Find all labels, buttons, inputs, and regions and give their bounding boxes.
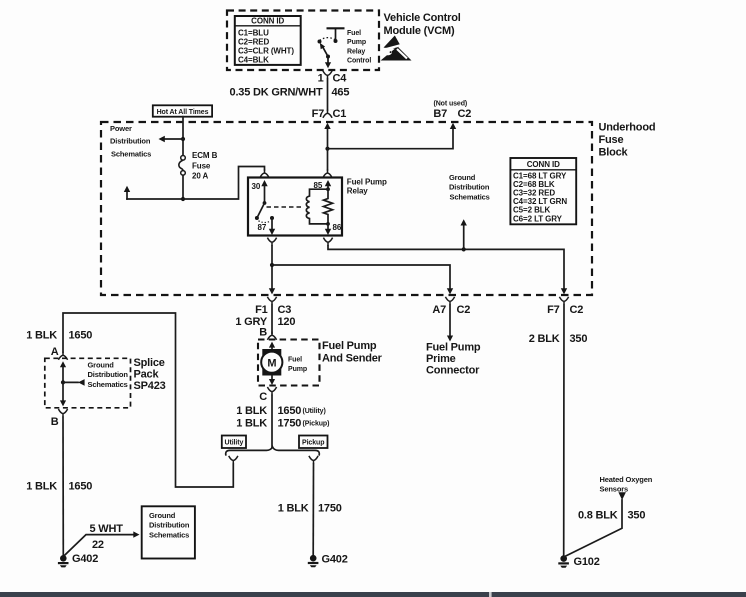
underhood fuse block box (dashed) (101, 122, 592, 295)
label B7 / C2 (433, 108, 471, 120)
svg-text:1 BLK: 1 BLK (26, 330, 57, 342)
label Ground Distribution Schematics (splice pack) (88, 361, 129, 389)
wire junction to relay pin 30 (183, 167, 265, 200)
svg-text:C3=CLR (WHT): C3=CLR (WHT) (238, 47, 294, 56)
label 1 BLK 1750 (pickup drop) (278, 503, 342, 515)
svg-text:Power: Power (110, 124, 132, 133)
svg-text:G402: G402 (72, 553, 98, 565)
svg-text:CONN ID: CONN ID (527, 160, 560, 169)
svg-text:Pickup: Pickup (302, 440, 324, 447)
relay pin 86 (325, 223, 342, 235)
svg-text:(Pickup): (Pickup) (303, 421, 330, 428)
svg-text:86: 86 (333, 223, 342, 232)
splice pack SP423 box (dashed) (45, 358, 131, 408)
label 1 BLK 1750 (Pickup) (236, 418, 329, 430)
label Fuel Pump And Sender (322, 340, 383, 365)
svg-text:20 A: 20 A (192, 172, 209, 181)
wire from Hot At All Times into fuse block (182, 117, 184, 156)
svg-text:2 BLK: 2 BLK (529, 333, 560, 345)
svg-text:A: A (51, 346, 59, 358)
svg-text:Fuel Pump: Fuel Pump (322, 340, 377, 352)
svg-text:(Utility): (Utility) (303, 408, 326, 415)
svg-text:Relay: Relay (347, 186, 368, 195)
wire arrow into motor (269, 342, 275, 350)
node relay coil bottom (326, 222, 330, 226)
svg-text:C4=BLK: C4=BLK (238, 56, 269, 65)
svg-text:(Not used): (Not used) (434, 101, 468, 108)
label 1 BLK 1650 (upper left) (26, 330, 92, 342)
label ECM B Fuse 20 A (192, 151, 218, 181)
connector glyph above relay pin 30 (260, 169, 269, 177)
wire heated oxygen sensors branch (564, 500, 622, 557)
label 1 GRY 120 (235, 316, 295, 328)
connector glyph exit F1 (267, 297, 276, 305)
connector glyph above relay pin 85 (323, 169, 332, 177)
label A7 / C2 (432, 304, 470, 316)
label F7 / C2 (547, 304, 583, 316)
brace splice to utility/pickup (226, 447, 320, 455)
ESD sensitivity symbol (381, 36, 412, 61)
node splice junction (61, 380, 65, 384)
wire stub with up arrow (power distribution) (124, 186, 183, 199)
node junction at power distribution tap (181, 137, 185, 141)
connector C1 pin F7 (glyph) (323, 110, 332, 118)
label Fuel Pump (inside) (288, 357, 307, 373)
connector glyph below relay pin 87 (267, 238, 276, 246)
connector C4 pin 1 (glyph) (323, 71, 332, 79)
label Pickup (boxed) (299, 436, 328, 449)
svg-text:Fuel Pump: Fuel Pump (426, 342, 481, 354)
relay K1 box (Fuel Pump Relay) (248, 178, 342, 236)
connector ID table (fuse block) (510, 158, 576, 224)
svg-text:Fuse: Fuse (599, 134, 624, 146)
label 0.8 BLK 350 (578, 510, 645, 522)
relay resistor R1 (324, 189, 333, 224)
label 0.35 DK GRN/WHT 465 (230, 87, 350, 99)
wire relay 87 down to F1 exit (269, 246, 275, 295)
svg-text:0.35 DK GRN/WHT: 0.35 DK GRN/WHT (230, 87, 323, 99)
wire F7 C2 to G102 (563, 305, 565, 556)
svg-text:120: 120 (278, 316, 296, 328)
svg-text:465: 465 (332, 87, 350, 99)
svg-text:ECM B: ECM B (192, 151, 218, 160)
connector glyph A (58, 352, 67, 360)
svg-text:Distribution: Distribution (449, 183, 490, 192)
wire arrow out of motor (269, 376, 275, 385)
label Splice Pack SP423 (134, 357, 166, 392)
svg-text:1 BLK: 1 BLK (236, 418, 267, 430)
wire pump to splice brace (271, 395, 273, 447)
node junction below fuse (181, 197, 185, 201)
svg-text:350: 350 (570, 333, 588, 345)
svg-text:C2: C2 (458, 108, 472, 120)
wire branch to B7 C2 (not used) (328, 123, 457, 149)
connector glyph B above pump (267, 332, 276, 340)
connector ID table (VCM) (235, 16, 301, 65)
svg-text:Utility: Utility (225, 440, 244, 447)
wire utility branch loop to splice pack (63, 313, 233, 487)
ground G402 (pickup) (308, 555, 319, 567)
svg-text:Module (VCM): Module (VCM) (384, 25, 455, 37)
svg-text:Fuse: Fuse (192, 161, 211, 170)
relay pin 87 (258, 216, 276, 235)
connector glyph utility branch (229, 456, 238, 464)
label Utility (boxed) (222, 436, 246, 449)
svg-text:Prime: Prime (426, 353, 456, 365)
svg-text:C1: C1 (333, 108, 347, 120)
svg-text:Schematics: Schematics (450, 192, 490, 201)
connector glyph exit F7 (559, 297, 568, 305)
svg-text:1750: 1750 (278, 418, 302, 430)
label Heated Oxygen Sensors (600, 475, 653, 494)
relay switch blade 30-87 (255, 203, 265, 220)
svg-text:Distribution: Distribution (110, 136, 151, 145)
connector heated oxygen sensors (triangle) (618, 492, 626, 500)
svg-text:1 BLK: 1 BLK (236, 405, 267, 417)
label F1 / C3 (255, 304, 291, 316)
svg-text:B: B (51, 416, 59, 428)
wire F1 to fuel pump (271, 305, 273, 333)
label 1 BLK 1650 (lower left) (26, 481, 92, 493)
svg-text:And Sender: And Sender (322, 353, 383, 365)
svg-text:Block: Block (599, 147, 629, 159)
ground G402 (left) (58, 555, 69, 567)
connector glyph C below pump (267, 387, 276, 395)
wire pickup branch to G402 (312, 464, 314, 555)
svg-text:5 WHT: 5 WHT (90, 523, 124, 535)
svg-text:C2: C2 (457, 304, 471, 316)
svg-text:1650: 1650 (278, 405, 302, 417)
svg-text:Hot At All Times: Hot At All Times (157, 109, 209, 116)
svg-text:30: 30 (252, 182, 261, 191)
svg-text:1: 1 (318, 73, 324, 85)
svg-text:C: C (259, 391, 267, 403)
svg-text:350: 350 (628, 510, 646, 522)
svg-text:B7: B7 (433, 108, 447, 120)
svg-text:Pump: Pump (288, 366, 307, 373)
wire splice pack to G402 (62, 417, 64, 556)
svg-text:Pump: Pump (347, 39, 366, 46)
svg-text:C3: C3 (278, 304, 292, 316)
svg-text:1650: 1650 (69, 330, 93, 342)
svg-text:Fuel Pump: Fuel Pump (347, 177, 387, 186)
svg-text:G102: G102 (574, 556, 600, 568)
svg-text:Fuel: Fuel (288, 357, 302, 364)
svg-text:Ground: Ground (149, 511, 176, 520)
svg-text:Fuel: Fuel (347, 30, 361, 37)
svg-text:SP423: SP423 (134, 380, 166, 392)
label Fuel Pump Relay (347, 177, 387, 195)
relay pin 30 (252, 180, 268, 205)
wire arrow up to Ground Distribution Schematics (461, 219, 467, 249)
wire arrow down inside splice pack (60, 382, 66, 406)
svg-text:F1: F1 (255, 304, 268, 316)
label 2 BLK 350 (529, 333, 588, 345)
svg-text:Ground: Ground (449, 173, 476, 182)
wire junction down to relay pin 85 (327, 149, 329, 170)
svg-text:87: 87 (258, 223, 267, 232)
label Vehicle Control Module (VCM) (384, 12, 461, 37)
svg-text:C2=RED: C2=RED (238, 37, 270, 46)
relay contact dotted throw (259, 221, 270, 223)
svg-text:Heated Oxygen: Heated Oxygen (600, 475, 653, 484)
wire VCM drop into fuse block (arrow under border) (324, 123, 330, 149)
svg-text:Control: Control (347, 58, 371, 65)
wire rail to A7 exit (272, 265, 453, 294)
svg-text:A7: A7 (432, 304, 446, 316)
svg-text:C1=BLU: C1=BLU (238, 28, 269, 37)
label Hot At All Times (boxed) (153, 105, 212, 116)
relay pin 85 (314, 180, 332, 190)
bottom bar (0, 592, 746, 597)
label box Ground Distribution Schematics (bottom) (142, 506, 195, 558)
label Underhood Fuse Block (599, 122, 656, 159)
svg-text:1650: 1650 (69, 481, 93, 493)
svg-text:Vehicle Control: Vehicle Control (384, 12, 461, 24)
label 1 / C4 (318, 73, 348, 85)
wire relay 86 rail to F7 exit (328, 246, 567, 295)
node junction ground distribution tap (462, 247, 466, 251)
label Ground Distribution Schematics (449, 173, 490, 201)
relay actuation dashed line (267, 206, 305, 208)
svg-text:1750: 1750 (318, 503, 342, 515)
label Fuel Pump Prime Connector (426, 342, 481, 377)
svg-text:Distribution: Distribution (88, 370, 129, 379)
svg-text:C4: C4 (333, 73, 348, 85)
wire fuse to junction (182, 175, 184, 199)
connector glyph below relay pin 86 (323, 238, 332, 246)
svg-text:1 BLK: 1 BLK (278, 503, 309, 515)
label Power Distribution Schematics (110, 124, 151, 158)
connector glyph B (splice out) (58, 409, 67, 417)
svg-text:Schematics: Schematics (111, 149, 151, 158)
motor M1 fuel pump (261, 349, 282, 376)
svg-text:Pack: Pack (134, 369, 160, 381)
svg-text:Schematics: Schematics (149, 530, 189, 539)
node junction to B7 (325, 147, 329, 151)
svg-text:Distribution: Distribution (149, 521, 190, 530)
ground G102 (558, 555, 569, 567)
relay coil L1 (306, 189, 328, 224)
svg-text:C6=2 LT GRY: C6=2 LT GRY (513, 214, 563, 223)
svg-text:F7: F7 (547, 304, 560, 316)
module box VCM (dashed) (227, 11, 379, 71)
svg-text:B: B (259, 327, 267, 339)
label Fuel Pump Relay Control (347, 30, 371, 65)
wire 465 DK GRN/WHT vertical (327, 79, 329, 110)
fuel pump and sender box (dashed) (258, 340, 320, 386)
svg-text:Ground: Ground (88, 361, 115, 370)
wire 5 WHT 22 arrow to ground distribution box (63, 531, 139, 556)
svg-text:1 BLK: 1 BLK (26, 481, 57, 493)
label 1 BLK 1650 (Utility) (236, 405, 326, 417)
svg-text:G402: G402 (322, 554, 348, 566)
svg-text:Schematics: Schematics (88, 380, 128, 389)
wire arrow A7 to prime connector (447, 305, 453, 341)
svg-text:M: M (267, 358, 276, 370)
svg-text:Relay: Relay (347, 48, 365, 55)
wire arrow to ground distribution (splice) (63, 379, 85, 386)
connector glyph pickup branch (309, 456, 318, 464)
label F7 / C1 (312, 108, 347, 120)
svg-text:F7: F7 (312, 108, 325, 120)
svg-text:0.8 BLK: 0.8 BLK (578, 510, 618, 522)
svg-text:C2: C2 (570, 304, 584, 316)
svg-text:22: 22 (92, 539, 104, 551)
driver switch U1 (fuel pump relay control) (318, 28, 345, 68)
node relay coil top (326, 187, 330, 191)
fuse F1 ECM B 20 A (179, 156, 185, 176)
svg-text:CONN ID: CONN ID (251, 17, 284, 26)
svg-text:Sensors: Sensors (600, 485, 629, 494)
svg-text:Splice: Splice (134, 357, 165, 369)
svg-text:Underhood: Underhood (599, 122, 656, 134)
connector glyph exit A7 (445, 297, 454, 305)
wire arrow up inside splice pack (60, 361, 66, 382)
svg-text:Connector: Connector (426, 365, 480, 377)
wire arrow to Power Distribution Schematics (159, 136, 184, 142)
node junction 87 rail (270, 263, 274, 267)
